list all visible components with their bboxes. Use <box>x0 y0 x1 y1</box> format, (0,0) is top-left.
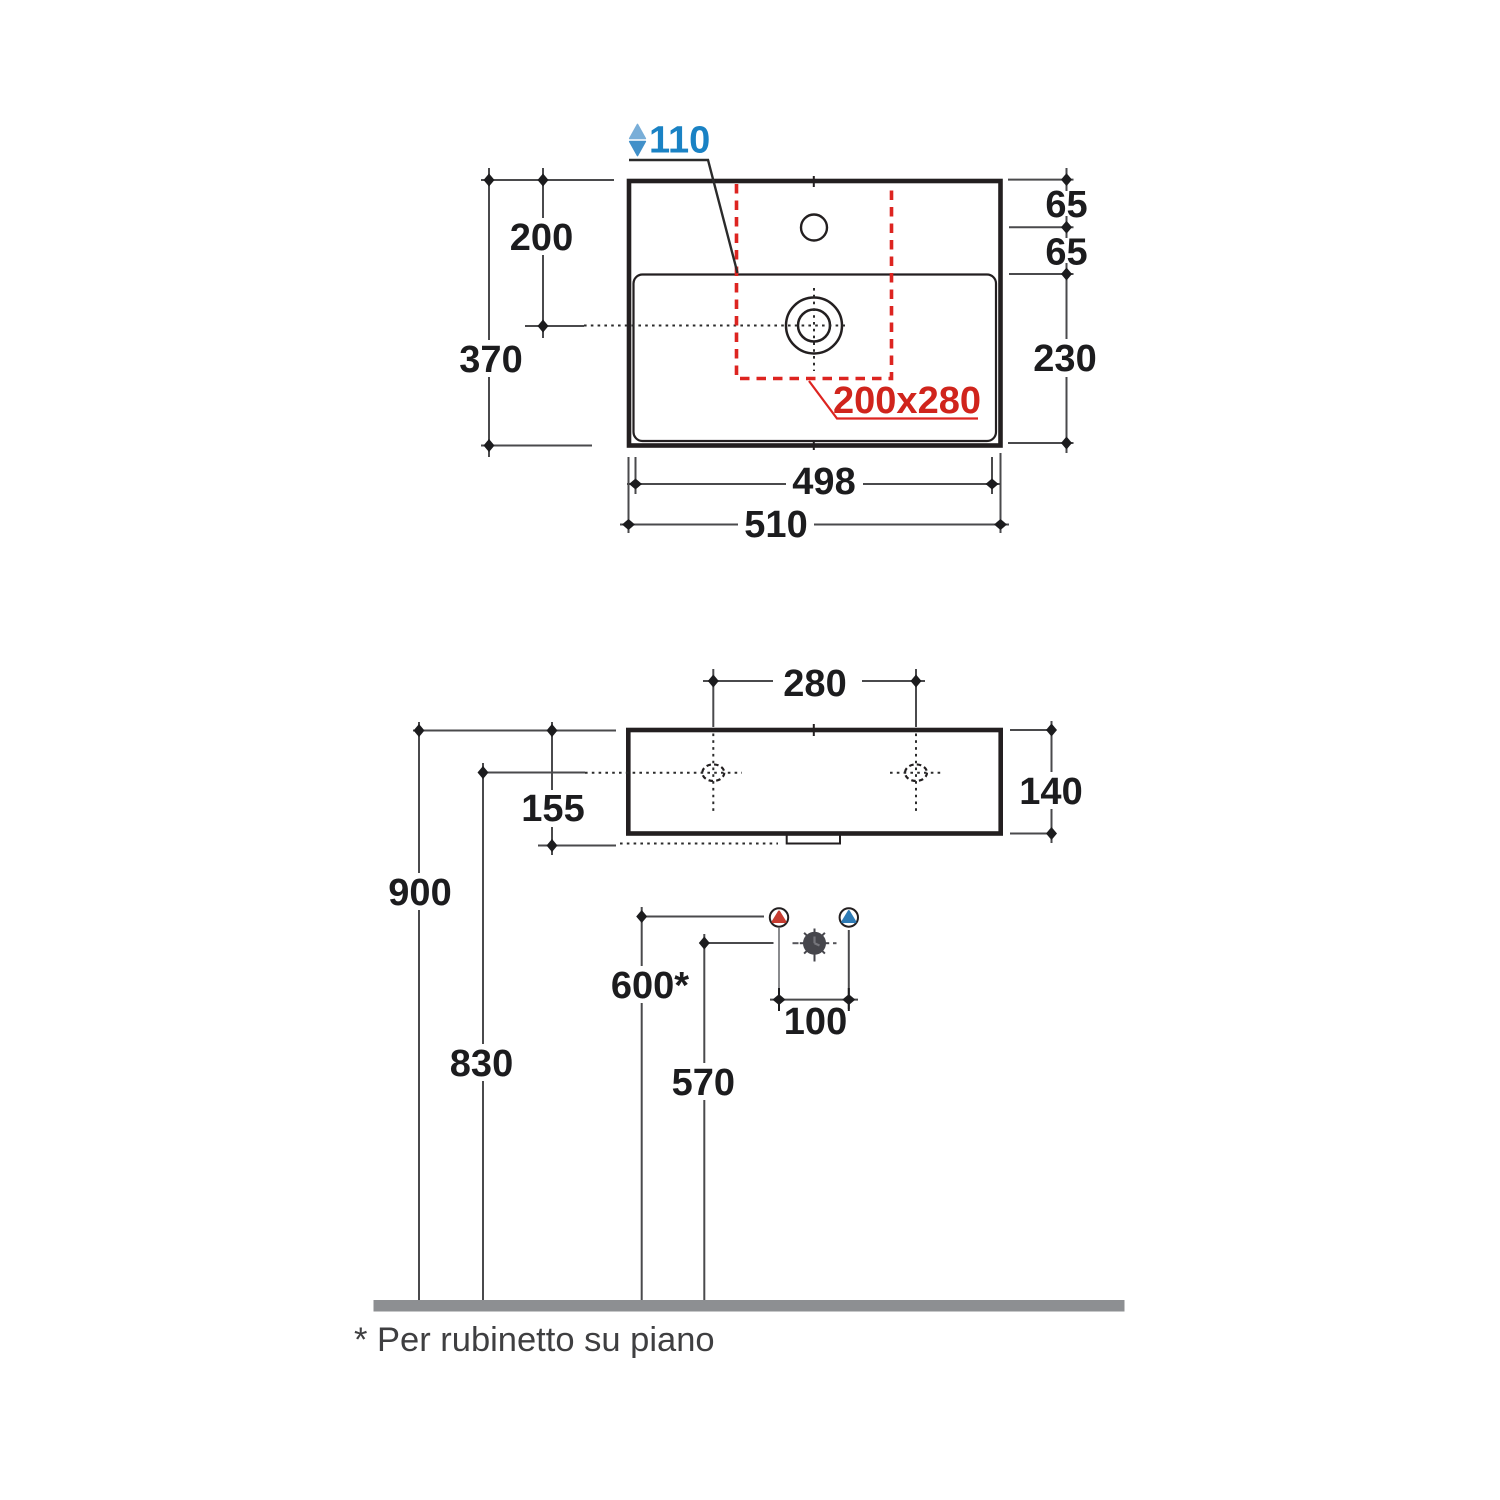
tap hole (plan) <box>801 215 827 241</box>
diamond 570 top <box>699 937 710 950</box>
diamond 230 top <box>1061 268 1072 281</box>
diamond 600 top <box>636 910 647 923</box>
diamond markers top view <box>484 173 1073 530</box>
svg-text:370: 370 <box>459 339 522 381</box>
drop line cold tap <box>848 930 850 1009</box>
ext 140 top <box>1010 729 1056 731</box>
text 370 <box>458 340 524 377</box>
right ext line 1 (rim top) <box>1008 179 1074 181</box>
diamond 230 bottom <box>1061 437 1072 450</box>
floor line <box>374 1300 1125 1312</box>
leader 110 <box>629 160 738 273</box>
diamond markers front view <box>414 675 1058 1012</box>
dim line 370 <box>488 168 490 457</box>
diamond 140 top <box>1046 724 1057 737</box>
text 200 <box>508 218 575 255</box>
diamond 155 top <box>547 724 558 737</box>
dim line 200 <box>542 168 544 338</box>
svg-text:65: 65 <box>1045 184 1087 226</box>
height icon blue arrows <box>630 125 646 156</box>
dim line 830 <box>482 763 484 1300</box>
basin inner bowl (plan) <box>634 275 997 442</box>
svg-text:* Per rubinetto su piano: * Per rubinetto su piano <box>354 1321 715 1359</box>
diamond 200 bottom <box>538 320 549 333</box>
ext line 155 bottom <box>538 845 616 847</box>
basin outer rim (plan) <box>629 181 1001 446</box>
centre tick front top edge <box>813 724 815 736</box>
tap hole left vertical dotted centreline <box>712 734 714 814</box>
dim line 510 <box>620 524 1009 526</box>
centre tick top edge <box>813 176 815 187</box>
text 498 <box>786 462 863 502</box>
ext 280 left vertical <box>712 669 714 727</box>
tap hole right (front, dashed ellipse) <box>905 764 927 781</box>
svg-text:140: 140 <box>1019 771 1082 813</box>
diamond 498 right <box>986 479 999 490</box>
diamond 65 a <box>1061 173 1072 186</box>
drop line hot tap <box>778 928 780 1009</box>
ext 140 bottom <box>1010 833 1056 835</box>
drain centreline horizontal dotted <box>584 325 845 327</box>
tap hole right horizontal dotted centreline <box>890 772 943 774</box>
cold water symbol <box>840 908 858 926</box>
text 830 <box>449 1044 515 1081</box>
ext line bottom-left (y=445.5) <box>481 445 592 447</box>
dim line 280 <box>703 680 773 682</box>
tap hole left horizontal dotted centreline <box>585 772 742 774</box>
drain outlet below basin <box>787 835 840 844</box>
text 230 <box>1031 339 1101 377</box>
dim line 600* <box>641 907 643 1300</box>
diamond 498 left <box>629 479 642 490</box>
red leader line <box>809 381 978 419</box>
basin front outline <box>628 730 1000 834</box>
spike 100 left <box>778 988 780 1011</box>
dim line 140 <box>1051 721 1053 843</box>
svg-text:280: 280 <box>783 663 846 705</box>
svg-text:200: 200 <box>510 217 573 259</box>
text 570 <box>670 1063 736 1100</box>
drain inner circle <box>798 310 830 342</box>
hot water symbol <box>770 908 788 926</box>
diamond 100 left <box>773 994 786 1005</box>
spike 100 right <box>848 988 850 1011</box>
ext line front top-left (y=730.5) <box>413 730 616 732</box>
diamond 370 bottom <box>484 439 495 452</box>
text 900 <box>387 873 453 910</box>
ext 510 right vertical <box>1000 453 1002 533</box>
ext 498 right vertical <box>991 457 993 494</box>
text 155 <box>520 790 586 827</box>
drain outer circle <box>786 298 842 354</box>
mixer knob symbol <box>793 929 837 962</box>
svg-text:65: 65 <box>1045 232 1087 274</box>
svg-text:100: 100 <box>784 1001 847 1043</box>
text 140 <box>1019 772 1085 809</box>
diamond 65 b <box>1061 221 1072 234</box>
ext 498 left vertical <box>635 457 637 494</box>
ext line 570 <box>704 942 773 944</box>
svg-text:570: 570 <box>672 1062 735 1104</box>
svg-text:600*: 600* <box>611 965 689 1007</box>
red dashed mounting area 200x280 <box>737 184 892 379</box>
diamond 370 top <box>484 174 495 187</box>
diamond 280 left <box>708 675 719 688</box>
tap hole left (front, dashed ellipse) <box>702 764 724 781</box>
text 600* <box>610 966 694 1003</box>
drain centreline vertical dotted <box>813 288 815 371</box>
knob centreline dashes <box>793 942 837 944</box>
svg-text:498: 498 <box>792 461 855 503</box>
dim line 155 <box>551 722 553 855</box>
svg-text:900: 900 <box>388 872 451 914</box>
svg-text:830: 830 <box>450 1043 513 1085</box>
svg-text:510: 510 <box>744 504 807 546</box>
diamond 140 bottom <box>1046 827 1057 840</box>
diamond 510 left <box>622 519 635 530</box>
right ext line 3 (bowl top) <box>1009 273 1074 275</box>
ext 510 left vertical <box>628 457 630 533</box>
diamond 510 right <box>994 519 1007 530</box>
dim line 570 <box>703 934 705 1300</box>
text 510 <box>738 504 814 544</box>
spikes 65/65 <box>1066 168 1068 191</box>
svg-text:200x280: 200x280 <box>833 380 981 422</box>
ext line 200 bottom (drain centre) <box>525 325 584 327</box>
centre tick bottom edge <box>813 440 815 450</box>
dim line 498 <box>627 483 1000 485</box>
svg-text:155: 155 <box>521 788 584 830</box>
dotted line at outlet bottom level <box>620 843 778 845</box>
diamond 200 top <box>538 174 549 187</box>
diamond 900 top <box>414 724 425 737</box>
dim line 230 <box>1066 274 1068 453</box>
tap hole right vertical dotted centreline <box>915 734 917 814</box>
right ext line 2 (tap centre) <box>1009 226 1074 228</box>
ext 280 right vertical <box>915 669 917 727</box>
dim line 100 <box>770 999 858 1001</box>
diamond 155 bottom <box>547 839 558 852</box>
right ext line 4 (rim bottom) <box>1008 442 1074 444</box>
diamond 830 top <box>478 766 489 779</box>
ext line top-left (y=180) <box>481 179 614 181</box>
diamond 280 right <box>911 675 922 688</box>
diamond 100 right <box>842 994 855 1005</box>
svg-text:230: 230 <box>1033 338 1096 380</box>
dim line 900 <box>418 722 420 1300</box>
ext line 600* <box>642 916 764 918</box>
svg-text:110: 110 <box>649 120 710 162</box>
ext line 830 (tap centre level) <box>483 772 585 774</box>
